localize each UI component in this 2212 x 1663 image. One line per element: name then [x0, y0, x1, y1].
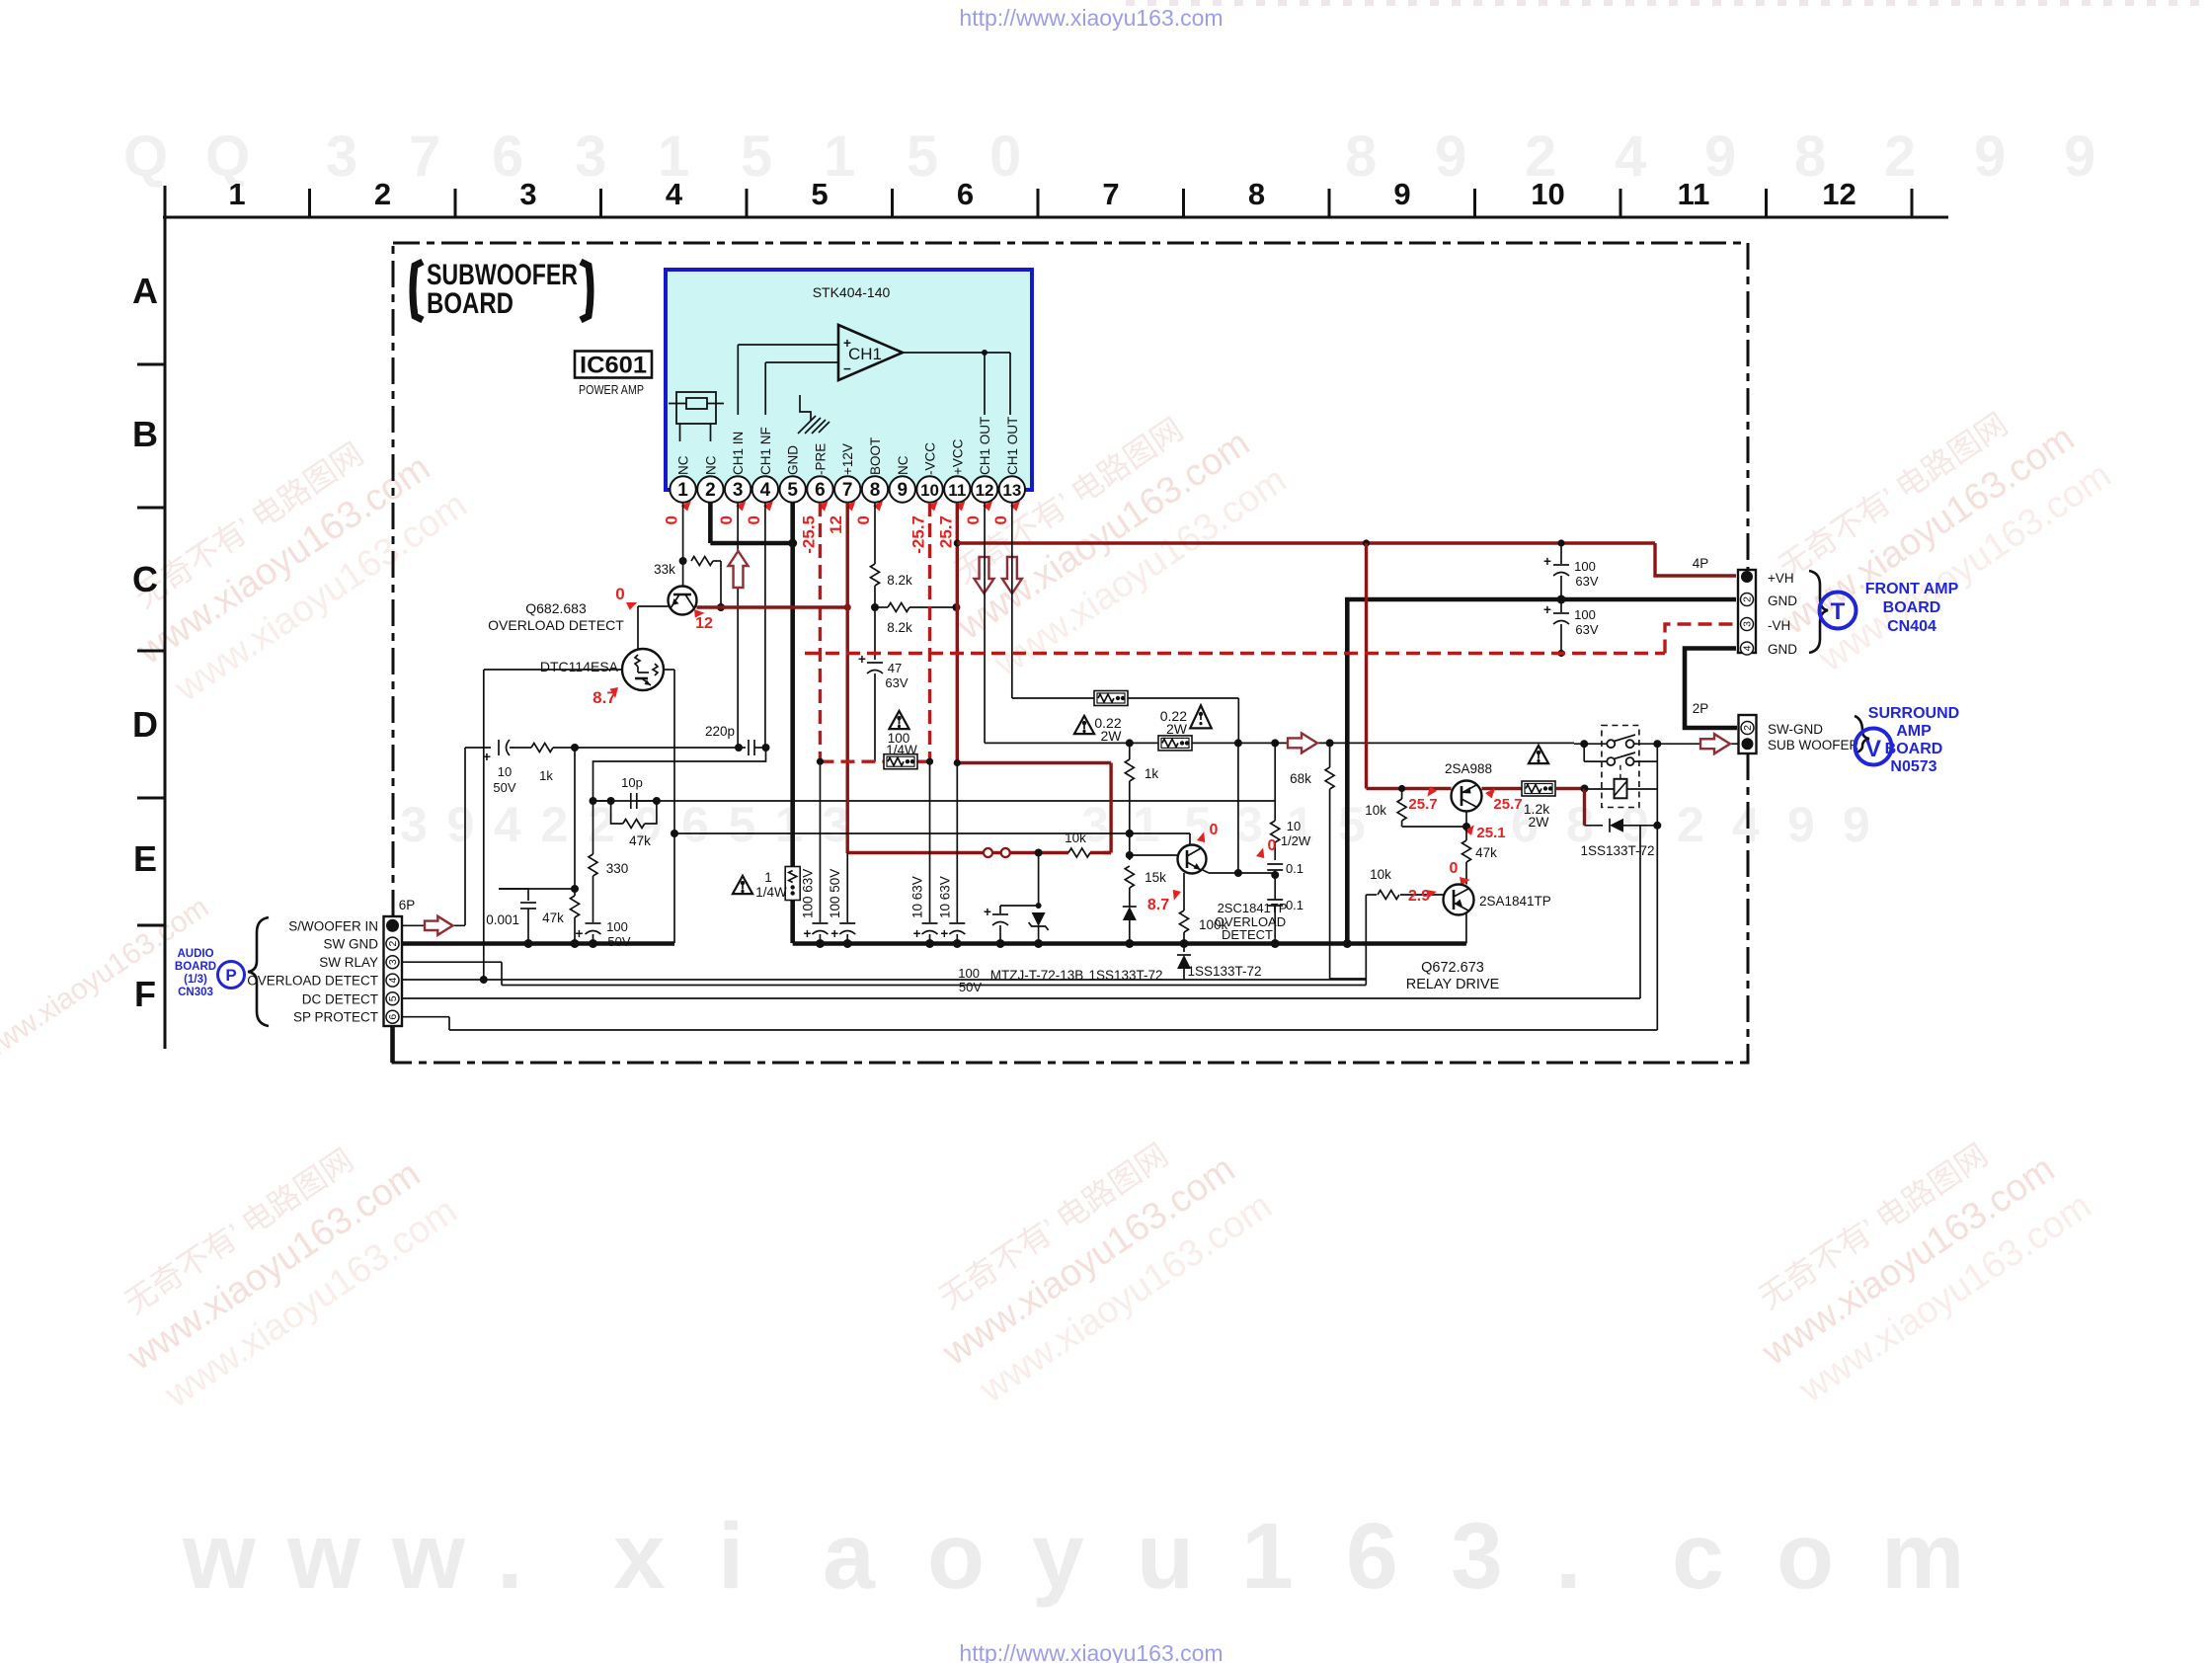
svg-text:x: x [613, 1504, 666, 1609]
svg-text:T: T [1831, 598, 1846, 625]
svg-text:25.7: 25.7 [936, 515, 955, 548]
connector 6P pins 2-6 [386, 937, 399, 1023]
svg-text:12: 12 [1822, 177, 1856, 211]
connector 4P signal labels [1768, 571, 1797, 657]
svg-text:0: 0 [663, 515, 681, 524]
wire 2SC1841 emitter right [1203, 870, 1275, 873]
svg-text:1SS133T-72: 1SS133T-72 [1187, 964, 1261, 979]
wire 12V rail red [697, 605, 848, 608]
capacitor 100 63V b [1543, 599, 1599, 657]
svg-text:-VCC: -VCC [923, 442, 938, 475]
value 8.7 at DTC [592, 684, 620, 707]
svg-text:3: 3 [326, 124, 357, 189]
wire zener column [1038, 853, 1040, 910]
wire OVERLOAD DETECT route [402, 976, 1366, 984]
wire pin11 +VCC red [954, 503, 961, 763]
capacitor 10 50V [483, 740, 516, 795]
capacitor 0.1 b [1267, 871, 1303, 944]
zener MTZJ-T-72-13B [990, 912, 1084, 983]
svg-text:y: y [1032, 1504, 1084, 1609]
svg-text:AMP: AMP [1896, 723, 1932, 740]
wire 2SC1841 emitter down [1183, 873, 1185, 890]
capacitor 100 50V pin7 [828, 853, 855, 944]
wire pin1 to 33k node [679, 503, 687, 587]
transistor DTC114ESA [622, 649, 664, 690]
svg-text:2W: 2W [1166, 721, 1188, 737]
svg-text:0: 0 [1450, 860, 1459, 877]
grid row labels A-F [132, 271, 165, 1014]
label 10k red loop [1065, 831, 1086, 845]
svg-text:10: 10 [920, 481, 939, 500]
svg-text:+: + [1543, 554, 1551, 569]
value 25.7 right [1484, 788, 1522, 813]
label 1.2k 2W [1524, 801, 1550, 830]
pink watermark cluster 1 [105, 404, 475, 716]
svg-text:.: . [1555, 1504, 1581, 1609]
svg-text:1: 1 [228, 177, 245, 211]
warning triangle 0.22 b [1160, 705, 1212, 737]
svg-text:10k: 10k [1370, 867, 1391, 882]
label SURROUND AMP BOARD N0573 [1868, 705, 1959, 775]
svg-text:10: 10 [1531, 177, 1564, 211]
pink watermark cluster 5 [1749, 374, 2119, 686]
svg-text:5: 5 [907, 124, 938, 189]
bottom url watermark [959, 1640, 1223, 1663]
svg-text:0: 0 [615, 585, 624, 603]
connector 2P box [1739, 715, 1757, 753]
svg-text:5: 5 [729, 797, 756, 852]
svg-text:+: + [576, 926, 584, 941]
svg-text:2: 2 [541, 797, 569, 852]
svg-text:63V: 63V [885, 675, 908, 690]
capacitor 100 63V pin6 [800, 761, 828, 943]
wire output row 707 [1012, 698, 1238, 743]
title SUBWOOFER BOARD [413, 259, 591, 320]
svg-text:SUB WOOFER: SUB WOOFER [1768, 738, 1859, 752]
circled V surround amp [1856, 729, 1892, 765]
svg-text:w: w [182, 1504, 257, 1609]
wire CH1 output [903, 350, 1010, 415]
wire red loop bottom [1104, 851, 1111, 854]
svg-text:0: 0 [854, 515, 873, 524]
brace surround amp [1855, 716, 1869, 753]
transistor 2SA1841TP Q672 [1444, 885, 1474, 915]
svg-text:100: 100 [958, 966, 980, 981]
wire +VCC 550 red rail [957, 539, 1736, 576]
svg-text:4: 4 [1615, 124, 1646, 189]
faint digit watermark row top [123, 124, 2095, 189]
label DTC114ESA [540, 659, 619, 674]
svg-text:+: + [830, 926, 838, 941]
svg-text:D: D [132, 704, 158, 745]
value 25.1 [1463, 825, 1505, 841]
svg-text:IC601: IC601 [580, 353, 647, 379]
svg-text:NC: NC [896, 455, 910, 475]
svg-text:6: 6 [387, 1014, 399, 1020]
svg-text:1/4W: 1/4W [755, 885, 787, 900]
svg-text:5: 5 [387, 995, 399, 1001]
svg-text:o: o [1777, 1504, 1834, 1609]
svg-text:3: 3 [1742, 621, 1754, 627]
svg-text:3: 3 [733, 480, 744, 501]
svg-text:SW RLAY: SW RLAY [319, 955, 378, 970]
capacitor 100 50V mid [958, 903, 1041, 994]
svg-text:a: a [823, 1504, 876, 1609]
svg-text:2SC1841TP: 2SC1841TP [1218, 901, 1288, 915]
wire pin4 column [764, 503, 766, 748]
svg-text:5: 5 [1338, 797, 1366, 852]
wire 2SC1841 collector riser [1189, 833, 1191, 845]
svg-text:9: 9 [2064, 124, 2095, 189]
svg-text:8: 8 [1248, 177, 1265, 211]
wire 6P below connector [390, 1026, 395, 1063]
wire pin12 column [984, 503, 986, 743]
circled P audio board [218, 962, 245, 989]
svg-text:+12V: +12V [840, 443, 855, 475]
value 8.7 at 2SC1841 [1147, 887, 1182, 913]
svg-text:12: 12 [827, 515, 845, 534]
wire column 1254 descender [1234, 743, 1242, 877]
wire pin5 GND thick column [790, 503, 795, 943]
svg-text:(1/3): (1/3) [184, 974, 207, 986]
resistor 10 1/2W [1271, 743, 1311, 860]
svg-text:+: + [1543, 602, 1551, 617]
wire pin13 column [1011, 503, 1013, 698]
svg-text:m: m [1881, 1504, 1964, 1609]
pin voltage values red [663, 501, 1023, 554]
pink watermark left edge [0, 891, 214, 1069]
svg-text:GND: GND [786, 445, 801, 475]
connector 6P pin1 [386, 919, 399, 932]
capacitor 47 63V [858, 652, 908, 761]
svg-text:-25.7: -25.7 [909, 515, 928, 554]
svg-text:3: 3 [400, 797, 428, 852]
svg-text:1SS133T-72: 1SS133T-72 [1580, 843, 1654, 858]
svg-text:10: 10 [1287, 819, 1301, 833]
svg-text:8.7: 8.7 [1147, 897, 1169, 913]
connector 6P signal labels [247, 918, 378, 1024]
svg-text:GND: GND [1768, 642, 1797, 657]
wire pin3 column [737, 503, 739, 748]
label 2SA988 [1445, 761, 1492, 776]
brace front amp [1809, 571, 1828, 653]
svg-text:68k: 68k [1290, 771, 1311, 786]
wire red branch to relay [1365, 543, 1368, 789]
svg-text:0.001: 0.001 [486, 912, 519, 927]
svg-text:SURROUND: SURROUND [1868, 705, 1959, 722]
wire 4P GND trunk [1347, 599, 1736, 944]
connector 2P signal labels [1768, 722, 1859, 752]
capacitor 10 63V pin10 [910, 761, 938, 943]
wire red to 12V col [847, 851, 984, 854]
arrow down CH1 OUT a [975, 557, 994, 594]
grid ruler with column numbers [163, 177, 1948, 1049]
wire SP PROTECT route [402, 1017, 1657, 1030]
label 2P [1693, 701, 1709, 716]
svg-text:5: 5 [811, 177, 828, 211]
svg-text:POWER AMP: POWER AMP [579, 383, 644, 397]
svg-text:3: 3 [519, 177, 536, 211]
svg-text:2SA988: 2SA988 [1445, 761, 1492, 776]
arrow right 6P input [425, 916, 453, 935]
value 0 at 2SC1841 emitter [1255, 837, 1277, 861]
svg-text:CH1 NF: CH1 NF [758, 427, 773, 475]
svg-text:63V: 63V [1575, 622, 1598, 637]
svg-text:2W: 2W [1101, 728, 1123, 744]
IC601 POWER AMP label [579, 383, 644, 397]
svg-text:OVERLOAD DETECT: OVERLOAD DETECT [247, 974, 378, 989]
svg-text:-25.5: -25.5 [799, 515, 818, 554]
wire red loop top [954, 759, 1111, 766]
connector 2P pin SUB WOOFER [1742, 738, 1754, 750]
wire subwoofer input riser [465, 748, 491, 925]
svg-text:Q682.683: Q682.683 [525, 600, 587, 616]
svg-text:AUDIO: AUDIO [177, 948, 213, 960]
svg-text:1/2W: 1/2W [1281, 833, 1311, 848]
svg-text:100: 100 [1574, 607, 1596, 622]
svg-text:Q: Q [123, 124, 168, 189]
label 4P [1693, 556, 1709, 571]
resistor 100k [1180, 890, 1228, 944]
svg-text:BOOT: BOOT [868, 437, 883, 475]
svg-text:CH1 OUT: CH1 OUT [1005, 417, 1020, 475]
svg-text:3: 3 [1451, 1504, 1503, 1609]
svg-text:9: 9 [1974, 124, 2006, 189]
svg-text:50V: 50V [959, 980, 982, 994]
svg-text:0.1: 0.1 [1286, 861, 1303, 876]
resistor 10k 2SA988 base [1397, 789, 1466, 828]
pink watermark cluster 3 [924, 379, 1295, 691]
svg-text:DETECT: DETECT [1222, 927, 1273, 942]
wire DTC collector out [664, 669, 674, 671]
svg-text:10: 10 [498, 764, 512, 779]
svg-text:2: 2 [705, 480, 716, 501]
svg-text:N0573: N0573 [1890, 758, 1936, 775]
brace audio board [248, 917, 269, 1026]
connector 2P pin SW-GND [1741, 722, 1754, 735]
svg-text:CH1: CH1 [848, 345, 882, 363]
svg-text:5: 5 [787, 480, 798, 501]
svg-text:220p: 220p [705, 724, 735, 739]
arrow right output [1288, 733, 1317, 752]
resistor 47k input shunt [542, 885, 579, 943]
wire DTC base [484, 669, 622, 671]
relay switch 2 [1580, 740, 1661, 765]
warning triangle relay [1529, 746, 1548, 763]
svg-text:4: 4 [666, 177, 683, 211]
pink watermark cluster 6 [1729, 1105, 2099, 1417]
wire Q682 base-left [638, 606, 669, 649]
wire CH1 + input [738, 345, 838, 415]
svg-text:4: 4 [494, 797, 521, 852]
svg-text:5: 5 [741, 124, 772, 189]
svg-text:13: 13 [1002, 481, 1021, 500]
svg-text:6P: 6P [399, 898, 416, 912]
arrow right subwoofer [1700, 734, 1730, 753]
label 1SS133T-72 relay [1580, 843, 1654, 858]
svg-text:10p: 10p [621, 775, 643, 790]
value 0 at Q672 [1450, 860, 1470, 888]
value 0 at Q682 [615, 585, 637, 611]
label 100 1/4W [886, 731, 917, 757]
svg-text:NC: NC [703, 455, 718, 475]
fusible resistor 100 1/4W [884, 754, 917, 769]
svg-text:2: 2 [1742, 725, 1754, 731]
svg-text:9: 9 [447, 797, 475, 852]
resistor 33k [654, 557, 725, 612]
capacitor 0.1 a [1267, 861, 1303, 900]
svg-text:4P: 4P [1693, 556, 1709, 571]
faint digit watermark row middle [400, 797, 1870, 852]
label AUDIO BOARD CN303 [175, 948, 216, 998]
svg-text:12: 12 [695, 615, 713, 632]
svg-text:DTC114ESA: DTC114ESA [540, 659, 619, 674]
svg-text:2W: 2W [1529, 814, 1550, 830]
svg-text:2: 2 [1742, 596, 1754, 602]
svg-text:OVERLOAD DETECT: OVERLOAD DETECT [488, 617, 624, 633]
resistor 10k red loop [1010, 848, 1111, 857]
svg-text:o: o [927, 1504, 985, 1609]
svg-text:.: . [497, 1504, 522, 1609]
svg-text:9: 9 [1393, 177, 1410, 211]
svg-text:+: + [913, 926, 921, 941]
resistor 10k Q672 base [1366, 891, 1443, 900]
svg-text:+: + [940, 926, 948, 941]
value 0 at 2SC1841 collector [1196, 822, 1219, 845]
svg-text:1k: 1k [1145, 766, 1159, 781]
wire pin10 -VCC dashed [928, 503, 931, 761]
giant bottom watermark [182, 1504, 1964, 1609]
svg-text:0: 0 [1210, 822, 1219, 838]
svg-text:B: B [132, 414, 158, 454]
relay switch 1 [1574, 735, 1657, 748]
capacitor 220p [705, 724, 770, 755]
svg-text:10 63V: 10 63V [937, 876, 952, 918]
svg-text:2: 2 [374, 177, 391, 211]
svg-text:100: 100 [606, 919, 628, 934]
svg-text:7: 7 [1102, 177, 1119, 211]
wire 4P GND2 to 2P [1685, 649, 1737, 729]
value 2.9 [1408, 888, 1437, 905]
wire 2SA988 emitter junction [1462, 812, 1470, 831]
capacitor 0.001 [486, 889, 536, 943]
label 2SA1841TP [1479, 894, 1551, 909]
svg-text:12: 12 [976, 481, 994, 500]
svg-text:10k: 10k [1365, 803, 1386, 818]
svg-text:RELAY DRIVE: RELAY DRIVE [1406, 977, 1500, 992]
IC U601 body STK404-140 [666, 270, 1032, 490]
capacitor 100 63V a [1543, 539, 1599, 603]
wire dashed rail -25.7 [817, 758, 933, 765]
label Q682 overload detect [488, 600, 624, 633]
svg-text:0: 0 [1268, 837, 1277, 854]
fusible resistor 0.22 2W b [1158, 736, 1192, 751]
svg-text:P: P [225, 966, 236, 985]
wire subwoofer out [1657, 743, 1738, 745]
svg-text:BOARD: BOARD [1885, 741, 1943, 757]
svg-text:9: 9 [1843, 797, 1870, 852]
fusible resistor 1ohm 1/4W [785, 867, 800, 901]
connector CN404 4P box [1738, 570, 1756, 653]
svg-text:1: 1 [775, 797, 803, 852]
wire row 844 [671, 830, 1190, 837]
connector 4P pins 2-4 [1741, 594, 1754, 656]
svg-text:CN303: CN303 [178, 987, 213, 998]
pink watermark cluster 2 [95, 1110, 465, 1422]
svg-text:6: 6 [957, 177, 974, 211]
IC601 pin circles 1-13 [670, 476, 1025, 502]
svg-text:8: 8 [1345, 124, 1377, 189]
relay coil [1615, 763, 1627, 798]
wire Q672 base riser [1365, 895, 1367, 986]
svg-text:8.2k: 8.2k [887, 620, 912, 635]
svg-text:330: 330 [606, 861, 629, 876]
bus junction dots [816, 939, 1352, 948]
svg-text:100: 100 [1574, 559, 1596, 574]
svg-text:SW GND: SW GND [324, 937, 379, 952]
svg-text:0: 0 [717, 515, 736, 524]
wire 220p row [575, 744, 746, 752]
fusible resistor 0.22 2W a [1094, 691, 1128, 706]
svg-text:−: − [843, 361, 851, 376]
resistor 8.2k vertical [870, 564, 912, 611]
svg-text:F: F [134, 974, 156, 1014]
svg-text:-VH: -VH [1768, 618, 1790, 633]
wire SW RLAY route [402, 962, 1366, 985]
svg-text:63V: 63V [1575, 574, 1598, 589]
wire pin8 to cap [874, 607, 876, 660]
svg-text:BOARD: BOARD [1883, 599, 1941, 616]
svg-text:100 63V: 100 63V [800, 869, 815, 918]
svg-text:SW-GND: SW-GND [1768, 722, 1823, 737]
svg-text:0: 0 [989, 124, 1021, 189]
svg-text:http://www.xiaoyu163.com: http://www.xiaoyu163.com [959, 5, 1223, 31]
svg-text:25.1: 25.1 [1476, 825, 1505, 841]
svg-text:2P: 2P [1693, 701, 1709, 716]
svg-text:w: w [391, 1504, 466, 1609]
transistor Q682 [669, 587, 697, 615]
wire 10p row [590, 797, 1276, 805]
svg-text:CN404: CN404 [1887, 618, 1936, 635]
svg-text:8.2k: 8.2k [887, 573, 912, 588]
top url watermark [959, 5, 1223, 31]
label 10k base [1365, 803, 1386, 818]
svg-text:E: E [133, 838, 157, 879]
IC601 pin name labels [676, 417, 1020, 475]
label 2SC1841TP [1215, 901, 1288, 942]
svg-text:1/4W: 1/4W [886, 743, 917, 757]
wire pin2 NC thick [710, 503, 797, 548]
relay RY dashed box [1602, 726, 1639, 808]
svg-text:S/WOOFER IN: S/WOOFER IN [288, 918, 378, 933]
svg-text:+: + [804, 926, 812, 941]
svg-text:47k: 47k [629, 833, 651, 848]
wire pin6 -PRE dashed [819, 503, 822, 761]
svg-text:FRONT AMP: FRONT AMP [1865, 581, 1959, 597]
svg-text:BOARD: BOARD [427, 287, 513, 320]
wire output row 752 [985, 739, 1574, 747]
svg-text:47: 47 [888, 661, 902, 675]
internal NC jumper symbol [669, 392, 724, 441]
svg-text:10 63V: 10 63V [910, 876, 925, 918]
svg-text:u: u [1137, 1504, 1194, 1609]
svg-text:9: 9 [897, 480, 908, 501]
svg-text:11: 11 [948, 481, 966, 500]
svg-text:SP PROTECT: SP PROTECT [293, 1010, 378, 1025]
svg-text:0: 0 [745, 515, 763, 524]
svg-text:V: V [1865, 736, 1881, 762]
svg-text:5: 5 [1184, 797, 1212, 852]
